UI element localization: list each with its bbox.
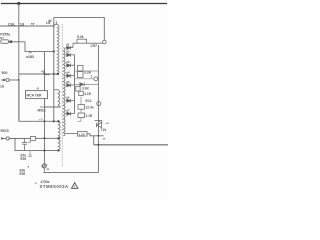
- svg-text:STM8S003A: STM8S003A: [40, 184, 69, 189]
- capacitor C8: [78, 65, 84, 71]
- junction low tap / IC supply drop: [44, 73, 46, 75]
- wire filter branch vertical: [80, 97, 82, 122]
- svg-text:+?: +?: [39, 118, 43, 122]
- diode D5: [66, 80, 75, 87]
- wire branch down to primary return: [19, 80, 54, 121]
- svg-text:!: !: [74, 185, 75, 189]
- svg-text:T: T: [91, 75, 93, 79]
- tvs diode Z1: [97, 123, 102, 128]
- resistor R8: [76, 86, 80, 91]
- svg-text:1S: 1S: [0, 85, 5, 89]
- terminal on output bus: [97, 102, 101, 106]
- connector J2 pin circle: [6, 137, 9, 140]
- svg-text:TVs: TVs: [101, 128, 107, 132]
- junction primary rail low tap: [53, 73, 55, 75]
- svg-text:4.1R: 4.1R: [84, 92, 91, 96]
- wire IC drive pin to aux winding: [45, 99, 61, 107]
- junction J1 wire / line drop: [18, 79, 20, 81]
- diode D8: [80, 82, 84, 86]
- wire line drop vertical: [18, 4, 20, 122]
- junction bus / L2 wire: [98, 135, 100, 137]
- svg-text:d3: d3: [66, 60, 70, 64]
- svg-text:CR7: CR7: [91, 44, 98, 48]
- svg-text:d6: d6: [66, 95, 70, 99]
- capacitor C13 stub: [29, 150, 31, 155]
- svg-text:a: a: [28, 165, 30, 169]
- svg-text:-8: -8: [36, 87, 39, 91]
- junction top rail to line drop: [17, 2, 20, 5]
- connector J2 lead: [1, 138, 6, 140]
- svg-text:w: w: [46, 167, 50, 171]
- transformer T1 primary winding: [54, 25, 59, 75]
- capacitor C12: [22, 139, 27, 151]
- svg-text:E06: E06: [20, 172, 26, 176]
- svg-text:MCA TER: MCA TER: [27, 94, 43, 98]
- wire branch to lower tap: [15, 139, 59, 151]
- capacitor C11: [78, 113, 85, 118]
- wire primary rail vertical: [53, 18, 55, 122]
- svg-text:**: **: [103, 138, 106, 142]
- wire IC pin down vertical: [43, 107, 45, 164]
- wire output line to right edge: [94, 144, 168, 146]
- svg-text:**: **: [31, 22, 35, 27]
- fuse F1: [1, 40, 10, 44]
- junction lower tap / IC drop: [44, 150, 46, 152]
- junction primary rail / neutral input: [53, 25, 55, 27]
- connector J1 arrow: [3, 79, 6, 82]
- diode D6: [66, 95, 75, 102]
- svg-text:3.1R: 3.1R: [82, 86, 89, 90]
- wire step down to IC supply: [25, 42, 54, 52]
- junction bus / output line: [97, 144, 99, 146]
- junction lower tap / winding: [57, 149, 59, 151]
- junction low tap / winding: [57, 73, 59, 75]
- wire snubber top: [54, 18, 105, 41]
- svg-text:**: **: [106, 122, 109, 126]
- connector J1 lead: [1, 79, 6, 81]
- svg-text:±283: ±283: [26, 55, 34, 59]
- terminal T1: [94, 77, 98, 81]
- svg-text:C6L: C6L: [8, 21, 16, 26]
- connector J2 arrow: [1, 137, 4, 140]
- wire primary low tap: [19, 73, 58, 75]
- svg-text:1.1R: 1.1R: [86, 114, 93, 118]
- junction step wire / primary rail: [53, 50, 55, 52]
- svg-text:d5: d5: [66, 80, 70, 84]
- wire snubber bottom left: [73, 42, 77, 44]
- svg-text:500: 500: [2, 71, 8, 75]
- svg-text:+2: +2: [28, 140, 32, 144]
- svg-text:E05: E05: [21, 157, 27, 161]
- transformer T1 lower aux winding: [58, 121, 60, 150]
- svg-text:5.3k: 5.3k: [77, 35, 84, 39]
- junction J2 wire / IC drop: [44, 137, 46, 139]
- wire secondary bottom tap: [66, 133, 78, 135]
- inductor L2: [78, 132, 88, 137]
- junction J2 wire / lower winding: [57, 137, 59, 139]
- wire output step down: [93, 136, 95, 145]
- transformer T1 aux winding: [54, 90, 61, 107]
- wire top AC line rail: [1, 3, 167, 5]
- svg-text:d4: d4: [66, 70, 70, 74]
- diode D7: [66, 108, 75, 115]
- svg-text:R?: R?: [0, 36, 4, 40]
- junction return / IC drop: [44, 120, 46, 122]
- junction return / primary rail: [53, 120, 55, 122]
- svg-text:EC1: EC1: [86, 99, 92, 103]
- wire return to lower winding: [54, 120, 59, 122]
- terminal CR7: [103, 40, 107, 44]
- wire output bus vertical: [97, 45, 99, 173]
- svg-text:o: o: [35, 181, 37, 185]
- connector J1 pin circle: [6, 78, 9, 81]
- wire L2 to output: [87, 134, 104, 136]
- wire neutral input to transformer primary: [0, 25, 54, 27]
- pin stub left: [40, 106, 45, 108]
- svg-text:++: ++: [46, 73, 50, 77]
- diode D4: [66, 70, 75, 77]
- capacitor C9: [78, 72, 84, 78]
- IC U1: [26, 91, 48, 99]
- node fuse output: [10, 41, 13, 44]
- transformer T1 core: [61, 24, 63, 167]
- wire diode row to bus: [75, 83, 99, 85]
- resistor R9: [79, 91, 84, 95]
- resistor R7: [77, 39, 87, 43]
- wire fuse to line drop: [10, 41, 25, 43]
- svg-text:R5C5: R5C5: [1, 129, 9, 133]
- stub right of no-connect: [44, 163, 47, 165]
- svg-text:d7: d7: [66, 108, 70, 112]
- wire snubber bottom right: [87, 42, 103, 44]
- warning triangle: [71, 183, 77, 189]
- diode D2: [66, 50, 75, 57]
- wire J1 to line drop: [9, 79, 19, 81]
- transformer T1 secondary winding: [63, 48, 65, 136]
- wire J2 to lower winding: [9, 137, 58, 139]
- wire C8 to bus: [75, 70, 78, 72]
- svg-text:12.4a: 12.4a: [86, 106, 94, 110]
- wire tvs tap: [95, 120, 103, 122]
- junction return / lower winding: [57, 120, 59, 122]
- diode D3: [66, 60, 75, 67]
- svg-text:d2: d2: [66, 50, 70, 54]
- resistor R10 series on J2 wire: [31, 136, 36, 140]
- capacitor C10: [78, 105, 85, 110]
- svg-text:W: W: [49, 19, 52, 23]
- wire output row to terminal: [75, 78, 99, 80]
- svg-text:d1: d1: [66, 42, 70, 46]
- wire rectifier collector rail: [74, 55, 76, 114]
- diode D1: [66, 42, 73, 49]
- no-connect symbol: [42, 164, 46, 168]
- svg-text:1.28: 1.28: [79, 132, 85, 136]
- wire no-connect to return: [43, 168, 45, 173]
- wire bottom return: [44, 172, 99, 174]
- wire IC supply drop: [44, 51, 46, 90]
